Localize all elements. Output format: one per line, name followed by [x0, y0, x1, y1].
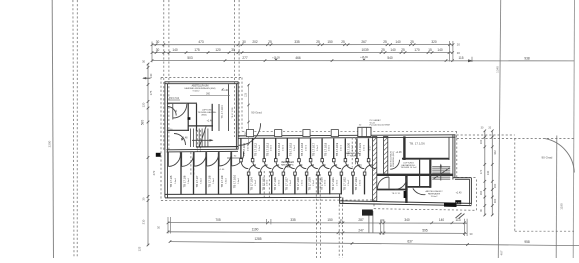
svg-text:5.6m2: 5.6m2	[188, 177, 190, 184]
wall bottom long row	[165, 193, 342, 196]
black blob below wall	[362, 210, 373, 216]
svg-text:+1.40: +1.40	[219, 169, 225, 171]
svg-text:25: 25	[383, 40, 387, 44]
section jog pair x264 lower bays	[263, 171, 265, 197]
black tag outside left wall	[156, 153, 161, 157]
90 Grad arc in parking	[545, 139, 574, 173]
svg-text:TB 17.1/10: TB 17.1/10	[232, 174, 236, 188]
stairs block	[190, 129, 192, 148]
svg-text:TB 17.1/13: TB 17.1/13	[265, 142, 269, 156]
svg-text:175: 175	[194, 48, 200, 52]
svg-text:140: 140	[149, 73, 153, 78]
stairs right	[432, 166, 450, 168]
svg-text:2.6m2: 2.6m2	[364, 144, 366, 151]
svg-text:+1.40: +1.40	[456, 193, 463, 195]
room tag 5.10 black	[455, 200, 461, 204]
svg-text:340: 340	[404, 218, 410, 222]
lower row partitions	[248, 175, 250, 194]
right section wall V x404	[403, 136, 405, 160]
svg-text:+1.40: +1.40	[207, 121, 214, 123]
svg-text:335: 335	[294, 40, 300, 44]
svg-text:2.6m2: 2.6m2	[255, 179, 257, 186]
outer wall block top	[165, 81, 239, 83]
svg-text:TB 17.1/7: TB 17.1/7	[195, 175, 199, 187]
exterior insulation dashed outline	[161, 77, 242, 79]
svg-text:320: 320	[431, 40, 437, 44]
svg-text:TB 17.1/24: TB 17.1/24	[250, 177, 254, 191]
outer wall block right	[235, 84, 237, 150]
svg-text:2.6m2: 2.6m2	[248, 144, 250, 151]
svg-text:473: 473	[198, 40, 204, 44]
svg-text:1190: 1190	[560, 203, 564, 210]
svg-text:TB 17.1/31: TB 17.1/31	[331, 177, 335, 191]
storage unit doors left stretch	[168, 152, 170, 167]
svg-text:30: 30	[156, 48, 160, 52]
svg-text:25: 25	[341, 40, 345, 44]
svg-text:2.6m2: 2.6m2	[282, 144, 284, 151]
svg-text:160: 160	[479, 190, 483, 195]
svg-text:2.6m2: 2.6m2	[294, 144, 296, 151]
right section wall H mid	[377, 174, 453, 176]
svg-text:15: 15	[428, 48, 432, 52]
svg-text:140: 140	[172, 48, 178, 52]
svg-text:2.6m2: 2.6m2	[340, 144, 342, 151]
svg-text:360: 360	[206, 93, 211, 96]
svg-text:705: 705	[215, 218, 221, 222]
svg-text:202: 202	[252, 40, 258, 44]
section line jog in stairs	[196, 130, 198, 152]
svg-text:90 Grad: 90 Grad	[251, 111, 262, 115]
svg-text:2.6m2: 2.6m2	[360, 179, 362, 186]
block room partition V3	[218, 104, 220, 131]
interior line x449	[448, 137, 450, 160]
svg-text:140: 140	[439, 218, 445, 222]
svg-text:125: 125	[138, 246, 142, 251]
block exterior door arc 90 Grad	[239, 123, 261, 145]
arrow at x470 on T3	[468, 59, 474, 62]
section line pair top-mid	[234, 0, 236, 137]
svg-text:Fassadenbünde NN/M: Fassadenbünde NN/M	[370, 125, 390, 127]
dimension line T1	[152, 44, 453, 46]
svg-text:+1.48: +1.48	[182, 138, 189, 140]
svg-text:170: 170	[479, 169, 483, 174]
svg-text:TB 17.1/28: TB 17.1/28	[296, 177, 300, 191]
svg-text:90 Grad: 90 Grad	[542, 156, 553, 160]
svg-text:2.6m2: 2.6m2	[278, 179, 280, 186]
svg-text:150: 150	[327, 40, 333, 44]
small tick 30 left of PV	[361, 127, 363, 132]
svg-text:140: 140	[395, 40, 401, 44]
right section wall H x407-430	[408, 186, 431, 188]
svg-text:2200: 2200	[48, 140, 52, 147]
storage unit partitions left stretch	[180, 152, 182, 194]
svg-text:2.6m2: 2.6m2	[302, 179, 304, 186]
svg-text:247: 247	[358, 228, 364, 232]
wall top middle+right stretch	[238, 135, 455, 136]
svg-text:15.0m2: 15.0m2	[431, 196, 439, 198]
continuation slashes	[456, 213, 462, 218]
svg-text:467: 467	[500, 250, 504, 255]
svg-text:2.6m2: 2.6m2	[271, 144, 273, 151]
svg-text:503: 503	[187, 56, 193, 60]
svg-text:FAHRRAD-KINDERWAGEN (EB4): FAHRRAD-KINDERWAGEN (EB4)	[185, 87, 216, 90]
upper row doors	[241, 162, 248, 169]
site dashed line left pair	[73, 0, 74, 258]
svg-text:2.6m2: 2.6m2	[336, 179, 338, 186]
svg-text:2.6m2: 2.6m2	[325, 179, 327, 186]
block interior wall H2 stairs-room	[188, 125, 213, 127]
wall bottom right	[340, 201, 472, 204]
svg-text:190: 190	[493, 183, 497, 188]
svg-text:30: 30	[242, 40, 246, 44]
bottom extension lines	[167, 217, 169, 234]
lower row doors	[249, 165, 256, 172]
svg-text:30: 30	[231, 48, 235, 52]
svg-text:25: 25	[316, 40, 320, 44]
block stairwell left wall	[196, 104, 198, 131]
svg-text:2.6m2: 2.6m2	[306, 144, 308, 151]
dashed parking rectangle	[514, 138, 516, 231]
svg-text:2.6m2: 2.6m2	[317, 144, 319, 151]
wall right lower	[469, 179, 471, 204]
svg-text:TB 17.1/30: TB 17.1/30	[319, 177, 323, 191]
svg-text:5.6m2: 5.6m2	[175, 177, 177, 184]
svg-text:120: 120	[215, 48, 221, 52]
svg-text:938: 938	[524, 56, 530, 60]
svg-text:2.6m2: 2.6m2	[348, 179, 350, 186]
svg-text:TB 17.1/15: TB 17.1/15	[289, 142, 293, 156]
svg-text:267: 267	[361, 40, 367, 44]
svg-text:TB 17.1/29: TB 17.1/29	[308, 177, 312, 191]
svg-text:30: 30	[142, 60, 146, 64]
svg-text:302: 302	[493, 150, 497, 155]
svg-text:+1.40: +1.40	[222, 90, 229, 92]
upper row partitions	[240, 138, 242, 159]
svg-text:2.6m2: 2.6m2	[290, 179, 292, 186]
svg-text:20: 20	[457, 43, 461, 47]
dimension line L3	[170, 242, 579, 246]
wall bottom step verticals x340	[339, 194, 341, 204]
svg-text:310: 310	[142, 219, 146, 224]
wall units-row top left stretch	[167, 148, 239, 151]
svg-text:TB 17.1/5: TB 17.1/5	[169, 175, 173, 187]
svg-text:TECHNIK 16.7m2: TECHNIK 16.7m2	[400, 167, 417, 169]
svg-text:TB 17.1/6: TB 17.1/6	[182, 175, 186, 187]
dimension chains right	[484, 131, 486, 216]
dimension line L1	[168, 222, 467, 225]
exterior door top wall	[358, 127, 371, 136]
svg-text:TB 17.1/17: TB 17.1/17	[312, 142, 316, 156]
svg-text:140: 140	[437, 48, 443, 52]
svg-text:TB 17: TB 17	[369, 145, 371, 152]
wall bottom right dark segment	[444, 203, 457, 207]
svg-text:TW 17.04: TW 17.04	[169, 98, 180, 100]
dimension line L2	[168, 232, 467, 234]
svg-text:595: 595	[422, 229, 428, 233]
small dim 360	[190, 95, 230, 97]
property boundary line left	[52, 0, 53, 258]
stairs arrow	[192, 139, 213, 141]
svg-text:TB 17.1/2B: TB 17.1/2B	[232, 107, 234, 118]
svg-text:5.6m2: 5.6m2	[238, 177, 240, 184]
svg-text:TB 17.1/11: TB 17.1/11	[242, 143, 246, 156]
svg-text:TB 17.1/16: TB 17.1/16	[300, 142, 304, 156]
drain dashed pair x340	[338, 205, 340, 259]
svg-text:958: 958	[524, 240, 530, 244]
svg-text:120: 120	[142, 102, 146, 107]
svg-text:100: 100	[479, 139, 483, 144]
black tag vertical lower	[404, 191, 407, 198]
hatched wall B x384	[384, 137, 388, 175]
block interior wall H3	[167, 129, 189, 131]
svg-text:TB 17.1/32: TB 17.1/32	[343, 177, 347, 191]
hatched wall A x373	[373, 137, 377, 202]
svg-text:300: 300	[493, 198, 497, 203]
svg-text:TB 17.1/27: TB 17.1/27	[285, 177, 289, 191]
svg-text:TB 17.1/25: TB 17.1/25	[261, 177, 265, 191]
wall right upper	[452, 134, 454, 179]
svg-text:25: 25	[381, 48, 385, 52]
svg-text:25: 25	[401, 48, 405, 52]
svg-text:1285: 1285	[254, 237, 261, 241]
svg-text:113: 113	[455, 218, 460, 222]
wall right step	[453, 177, 471, 179]
right section wall V x406 lower	[405, 176, 407, 203]
svg-text:TB. 17.1/26: TB. 17.1/26	[409, 141, 425, 145]
light wells top wall	[246, 130, 253, 137]
black door tag block	[188, 117, 191, 120]
svg-text:5.6m2: 5.6m2	[213, 177, 215, 184]
right section wall H lower-left	[377, 189, 408, 191]
block door arcs left room	[172, 104, 174, 120]
svg-text:TB 17.1/18: TB 17.1/18	[323, 142, 327, 156]
svg-text:540: 540	[387, 56, 393, 60]
svg-text:5.6m2: 5.6m2	[201, 177, 203, 184]
outer wall left	[164, 81, 166, 197]
lower row door jambs	[247, 172, 250, 175]
block room partition V4	[228, 84, 230, 131]
site line x557 lower	[555, 136, 558, 259]
right section wall V x430	[429, 160, 431, 188]
svg-text:2.6m2: 2.6m2	[329, 144, 331, 151]
block interior wall V2	[211, 104, 213, 131]
block interior wall H1	[167, 102, 197, 104]
svg-text:140: 140	[486, 170, 490, 175]
svg-text:LÜFTUNG: LÜFTUNG	[202, 108, 213, 111]
svg-text:25: 25	[268, 40, 272, 44]
svg-text:287: 287	[358, 218, 364, 222]
svg-text:TB 17.1/19: TB 17.1/19	[335, 142, 339, 156]
svg-text:TB 17.1/12: TB 17.1/12	[254, 142, 258, 156]
site line x500	[498, 0, 500, 258]
svg-text:(EB4): (EB4)	[201, 114, 206, 116]
top extension lines	[151, 42, 153, 63]
svg-text:637: 637	[407, 240, 413, 244]
svg-text:335: 335	[290, 218, 296, 222]
svg-text:9.50m2: 9.50m2	[193, 91, 201, 93]
svg-text:140: 140	[390, 48, 396, 52]
site line x574	[573, 0, 574, 258]
svg-text:5.6m2: 5.6m2	[226, 177, 228, 184]
block interior wall V1	[187, 103, 189, 131]
svg-text:RAUM: RAUM	[350, 155, 356, 158]
svg-text:TB 17.1/9: TB 17.1/9	[220, 175, 224, 187]
stair landing wall edge	[196, 146, 238, 148]
svg-text:175: 175	[149, 90, 153, 95]
right section wall H upper	[402, 158, 450, 160]
dimension chain left x148	[147, 64, 149, 246]
svg-text:30: 30	[457, 51, 461, 55]
svg-text:25: 25	[410, 40, 414, 44]
section line pair bottom	[315, 174, 317, 258]
svg-text:580: 580	[141, 120, 145, 126]
section stub dashed in upper row	[351, 138, 353, 168]
dimension line T3	[152, 60, 574, 62]
svg-text:TB 17.1/14: TB 17.1/14	[277, 142, 281, 156]
svg-text:TB 17.51: TB 17.51	[392, 193, 402, 195]
chain arrow marker y78	[143, 77, 151, 79]
svg-text:170: 170	[414, 48, 420, 52]
svg-text:2.6m2: 2.6m2	[259, 144, 261, 151]
small chain right of block	[248, 84, 250, 145]
svg-text:+1.48: +1.48	[396, 152, 403, 154]
svg-text:1340: 1340	[496, 66, 500, 73]
svg-text:277: 277	[242, 56, 248, 60]
svg-text:TB 17.1/26: TB 17.1/26	[273, 177, 277, 191]
svg-text:2.6m2: 2.6m2	[267, 179, 269, 186]
svg-text:TB 17.1/8: TB 17.1/8	[207, 175, 211, 187]
right section door arcs	[378, 177, 390, 189]
lueftung room wall x419	[419, 160, 421, 187]
svg-text:ABSTELLRAUM: ABSTELLRAUM	[192, 85, 209, 88]
svg-text:TB. 17.1/24: TB. 17.1/24	[221, 105, 224, 119]
svg-text:272: 272	[152, 170, 156, 175]
dimension line T2	[152, 52, 453, 54]
svg-text:TB 17.1/33: TB 17.1/33	[354, 177, 358, 191]
svg-text:2.6m2: 2.6m2	[313, 179, 315, 186]
stairs right arrow	[440, 165, 442, 181]
section line pair top-left	[163, 0, 165, 151]
svg-text:123: 123	[245, 92, 248, 97]
svg-text:1039: 1039	[361, 48, 368, 52]
upper row door jambs	[240, 159, 243, 162]
svg-text:466: 466	[295, 56, 301, 60]
door width dim	[227, 157, 243, 159]
svg-text:30: 30	[156, 40, 160, 44]
svg-text:150: 150	[327, 218, 333, 222]
svg-text:115: 115	[458, 56, 463, 60]
svg-text:(EB8): (EB8)	[285, 167, 291, 169]
svg-text:1190: 1190	[252, 227, 259, 231]
